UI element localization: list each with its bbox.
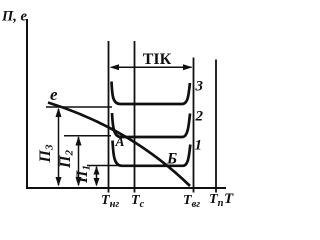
vertical line Tвг — [193, 58, 195, 193]
svg-text:1: 1 — [195, 138, 203, 154]
svg-text:ТІК: ТІК — [143, 51, 172, 68]
ТІК double arrow — [110, 64, 193, 70]
П2 tick line — [64, 135, 111, 137]
arrow П1 — [94, 166, 100, 187]
svg-text:е: е — [50, 85, 58, 104]
svg-text:2: 2 — [195, 109, 204, 125]
П1 tick line — [87, 165, 122, 167]
svg-text:Б: Б — [166, 151, 177, 168]
curve 2 — [112, 113, 190, 137]
svg-text:3: 3 — [195, 79, 204, 95]
x-axis — [26, 187, 226, 189]
curve 1 — [113, 141, 191, 166]
П3 tick line — [46, 106, 112, 108]
vertical line Tп — [215, 60, 217, 193]
svg-text:А: А — [115, 134, 125, 149]
svg-text:П, е: П, е — [1, 9, 28, 25]
y-axis — [26, 19, 28, 189]
vertical line Tнг — [108, 41, 110, 193]
svg-text:Т: Т — [224, 191, 234, 207]
arrow П2 — [76, 136, 82, 187]
e diagonal line — [48, 103, 190, 187]
arrow П3 — [56, 108, 62, 187]
vertical line Tс — [134, 41, 136, 193]
curve 3 — [112, 82, 190, 105]
